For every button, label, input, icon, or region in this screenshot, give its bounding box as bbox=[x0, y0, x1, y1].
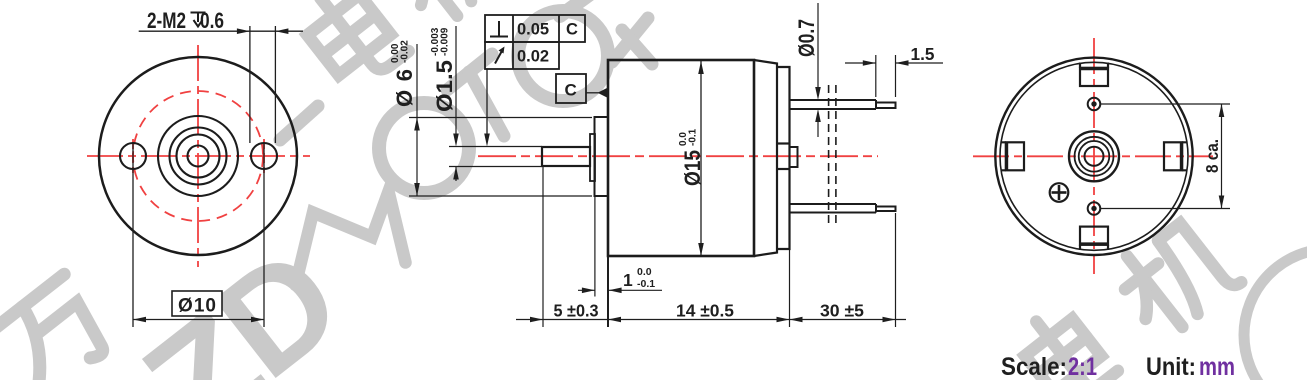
svg-text:C: C bbox=[566, 21, 578, 39]
svg-text:0.0: 0.0 bbox=[637, 266, 652, 278]
svg-text:C: C bbox=[565, 81, 577, 100]
svg-text:30 ±5: 30 ±5 bbox=[820, 301, 864, 321]
svg-text:Ø1.5: Ø1.5 bbox=[432, 60, 457, 112]
svg-text:Ø0.7: Ø0.7 bbox=[794, 19, 819, 57]
svg-text:Ø10: Ø10 bbox=[178, 296, 216, 317]
svg-text:Unit:mm: Unit:mm bbox=[1146, 353, 1235, 380]
svg-text:5 ±0.3: 5 ±0.3 bbox=[554, 301, 599, 321]
svg-text:8 ca.: 8 ca. bbox=[1202, 139, 1222, 173]
svg-text:Scale:2:1: Scale:2:1 bbox=[1001, 353, 1097, 380]
svg-text:-0.1: -0.1 bbox=[688, 128, 699, 146]
svg-text:14 ±0.5: 14 ±0.5 bbox=[676, 301, 734, 321]
svg-text:-0.02: -0.02 bbox=[400, 40, 411, 63]
svg-text:Ø15: Ø15 bbox=[680, 150, 705, 186]
svg-text:1: 1 bbox=[623, 270, 633, 290]
svg-text:-0.1: -0.1 bbox=[637, 278, 655, 290]
svg-text:0.02: 0.02 bbox=[517, 48, 549, 66]
svg-text:-0.009: -0.009 bbox=[440, 27, 451, 56]
svg-text:2-M2: 2-M2 bbox=[147, 8, 186, 33]
svg-text:1.5: 1.5 bbox=[911, 44, 935, 64]
svg-text:0.05: 0.05 bbox=[517, 21, 549, 39]
svg-text:0.6: 0.6 bbox=[200, 8, 224, 33]
